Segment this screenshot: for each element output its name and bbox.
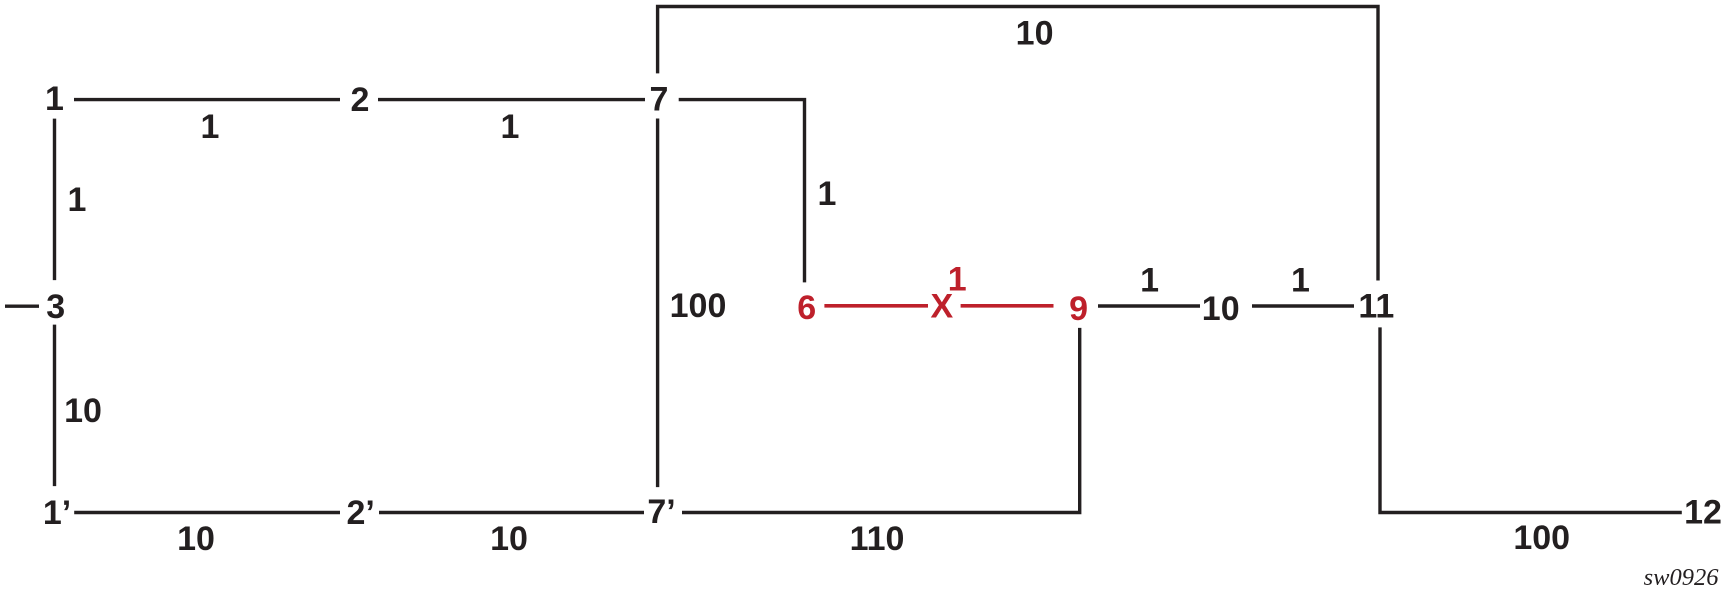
svg-text:9: 9 xyxy=(1069,290,1088,328)
wire link 2-7 xyxy=(378,98,645,101)
svg-text:sw0926: sw0926 xyxy=(1644,564,1720,591)
wire link 7-6 xyxy=(679,100,805,283)
svg-text:10: 10 xyxy=(490,520,528,558)
svg-text:110: 110 xyxy=(850,520,905,558)
wire link 7-7' xyxy=(656,119,659,488)
svg-text:1: 1 xyxy=(45,80,64,118)
svg-text:2’: 2’ xyxy=(347,494,375,532)
svg-text:7: 7 xyxy=(650,81,669,119)
svg-text:1: 1 xyxy=(818,175,837,213)
svg-text:2: 2 xyxy=(351,81,370,119)
wire link 1'-2' xyxy=(74,511,340,514)
wire link X-9 red xyxy=(961,304,1054,308)
svg-text:12: 12 xyxy=(1684,493,1722,531)
wire link 1-3 xyxy=(53,119,56,281)
svg-text:1: 1 xyxy=(201,108,220,146)
wire link 6-X red xyxy=(824,304,928,308)
svg-text:100: 100 xyxy=(670,287,727,325)
svg-text:10: 10 xyxy=(64,392,102,430)
svg-text:10: 10 xyxy=(177,520,215,558)
wire stub left of node 3 xyxy=(5,305,39,308)
svg-text:7’: 7’ xyxy=(647,493,675,531)
wire link 2'-7' xyxy=(379,511,644,514)
svg-text:1: 1 xyxy=(501,108,520,146)
wire link 1-2 xyxy=(74,98,340,101)
wire link 3-1' xyxy=(53,325,56,487)
svg-text:11: 11 xyxy=(1358,287,1394,325)
svg-text:100: 100 xyxy=(1513,519,1570,557)
wire link 10-11 xyxy=(1252,304,1354,307)
wire link 9-10 xyxy=(1098,304,1200,307)
svg-text:1: 1 xyxy=(68,181,87,219)
wire link 11-12 xyxy=(1380,327,1682,512)
svg-text:3: 3 xyxy=(46,288,65,326)
svg-text:1: 1 xyxy=(1291,262,1310,300)
wire link 7-11 top loop xyxy=(658,7,1378,281)
wire link 7'-9 xyxy=(682,328,1080,513)
svg-text:10: 10 xyxy=(1016,15,1054,53)
svg-text:6: 6 xyxy=(797,289,816,327)
svg-text:1: 1 xyxy=(1140,262,1159,300)
svg-text:1’: 1’ xyxy=(43,494,71,532)
svg-text:10: 10 xyxy=(1202,290,1240,328)
svg-text:1: 1 xyxy=(948,261,967,299)
